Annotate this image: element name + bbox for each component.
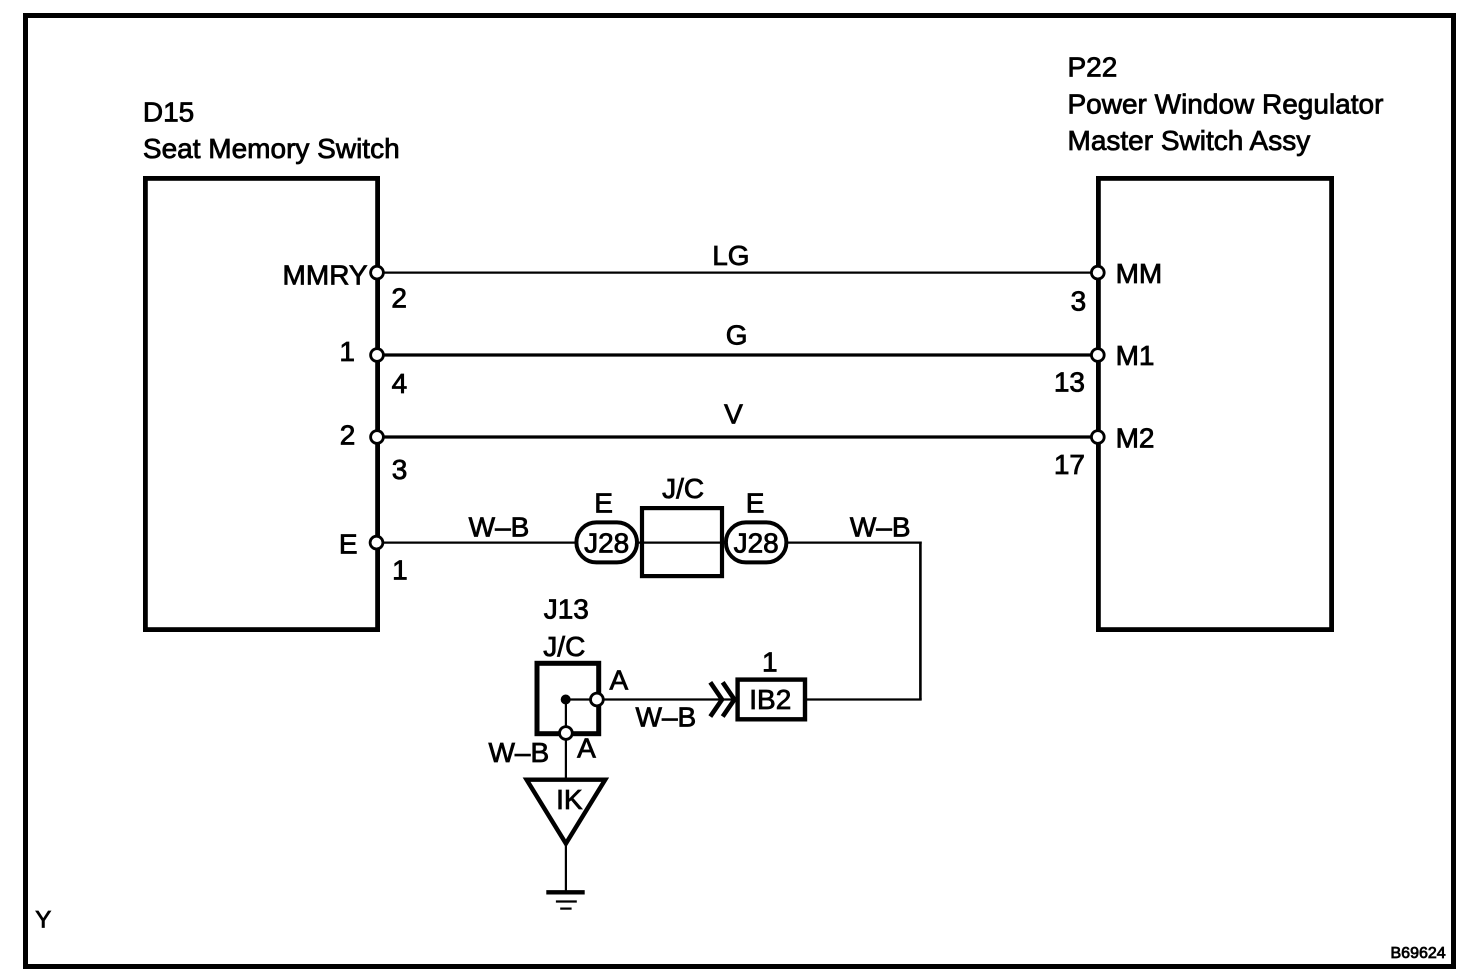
svg-text:J/C: J/C <box>543 631 585 662</box>
svg-text:W–B: W–B <box>636 702 697 733</box>
svg-text:1: 1 <box>339 336 355 367</box>
svg-text:IB2: IB2 <box>749 684 791 715</box>
svg-text:LG: LG <box>712 240 749 271</box>
svg-text:E: E <box>594 487 613 518</box>
svg-text:G: G <box>726 320 748 351</box>
svg-text:P22: P22 <box>1068 52 1118 83</box>
svg-text:W–B: W–B <box>469 512 530 543</box>
svg-text:2: 2 <box>340 420 356 451</box>
svg-text:M1: M1 <box>1116 340 1155 371</box>
svg-text:W–B: W–B <box>488 737 549 768</box>
svg-text:4: 4 <box>392 368 408 399</box>
svg-text:A: A <box>577 733 596 764</box>
svg-text:Seat Memory Switch: Seat Memory Switch <box>143 133 400 164</box>
svg-text:1: 1 <box>762 647 778 678</box>
svg-text:MM: MM <box>1116 258 1163 289</box>
svg-text:E: E <box>339 528 358 559</box>
svg-text:13: 13 <box>1054 367 1085 398</box>
svg-text:E: E <box>746 487 765 518</box>
svg-text:W–B: W–B <box>850 512 911 543</box>
svg-text:J/C: J/C <box>662 473 704 504</box>
svg-text:Y: Y <box>35 906 51 933</box>
svg-text:3: 3 <box>1071 285 1087 316</box>
svg-text:MMRY: MMRY <box>283 260 368 291</box>
svg-text:V: V <box>724 399 743 430</box>
svg-text:3: 3 <box>392 454 408 485</box>
svg-text:2: 2 <box>391 282 407 313</box>
svg-text:1: 1 <box>392 555 408 586</box>
svg-text:17: 17 <box>1054 449 1085 480</box>
svg-text:A: A <box>610 665 629 696</box>
svg-text:M2: M2 <box>1116 422 1155 453</box>
svg-text:J28: J28 <box>734 528 779 559</box>
svg-text:B69624: B69624 <box>1391 945 1446 962</box>
svg-text:Master Switch Assy: Master Switch Assy <box>1068 125 1311 156</box>
svg-text:Power Window Regulator: Power Window Regulator <box>1068 88 1384 119</box>
svg-text:J13: J13 <box>544 594 589 625</box>
svg-text:IK: IK <box>556 784 583 815</box>
svg-text:J28: J28 <box>584 528 629 559</box>
svg-text:D15: D15 <box>143 97 194 128</box>
